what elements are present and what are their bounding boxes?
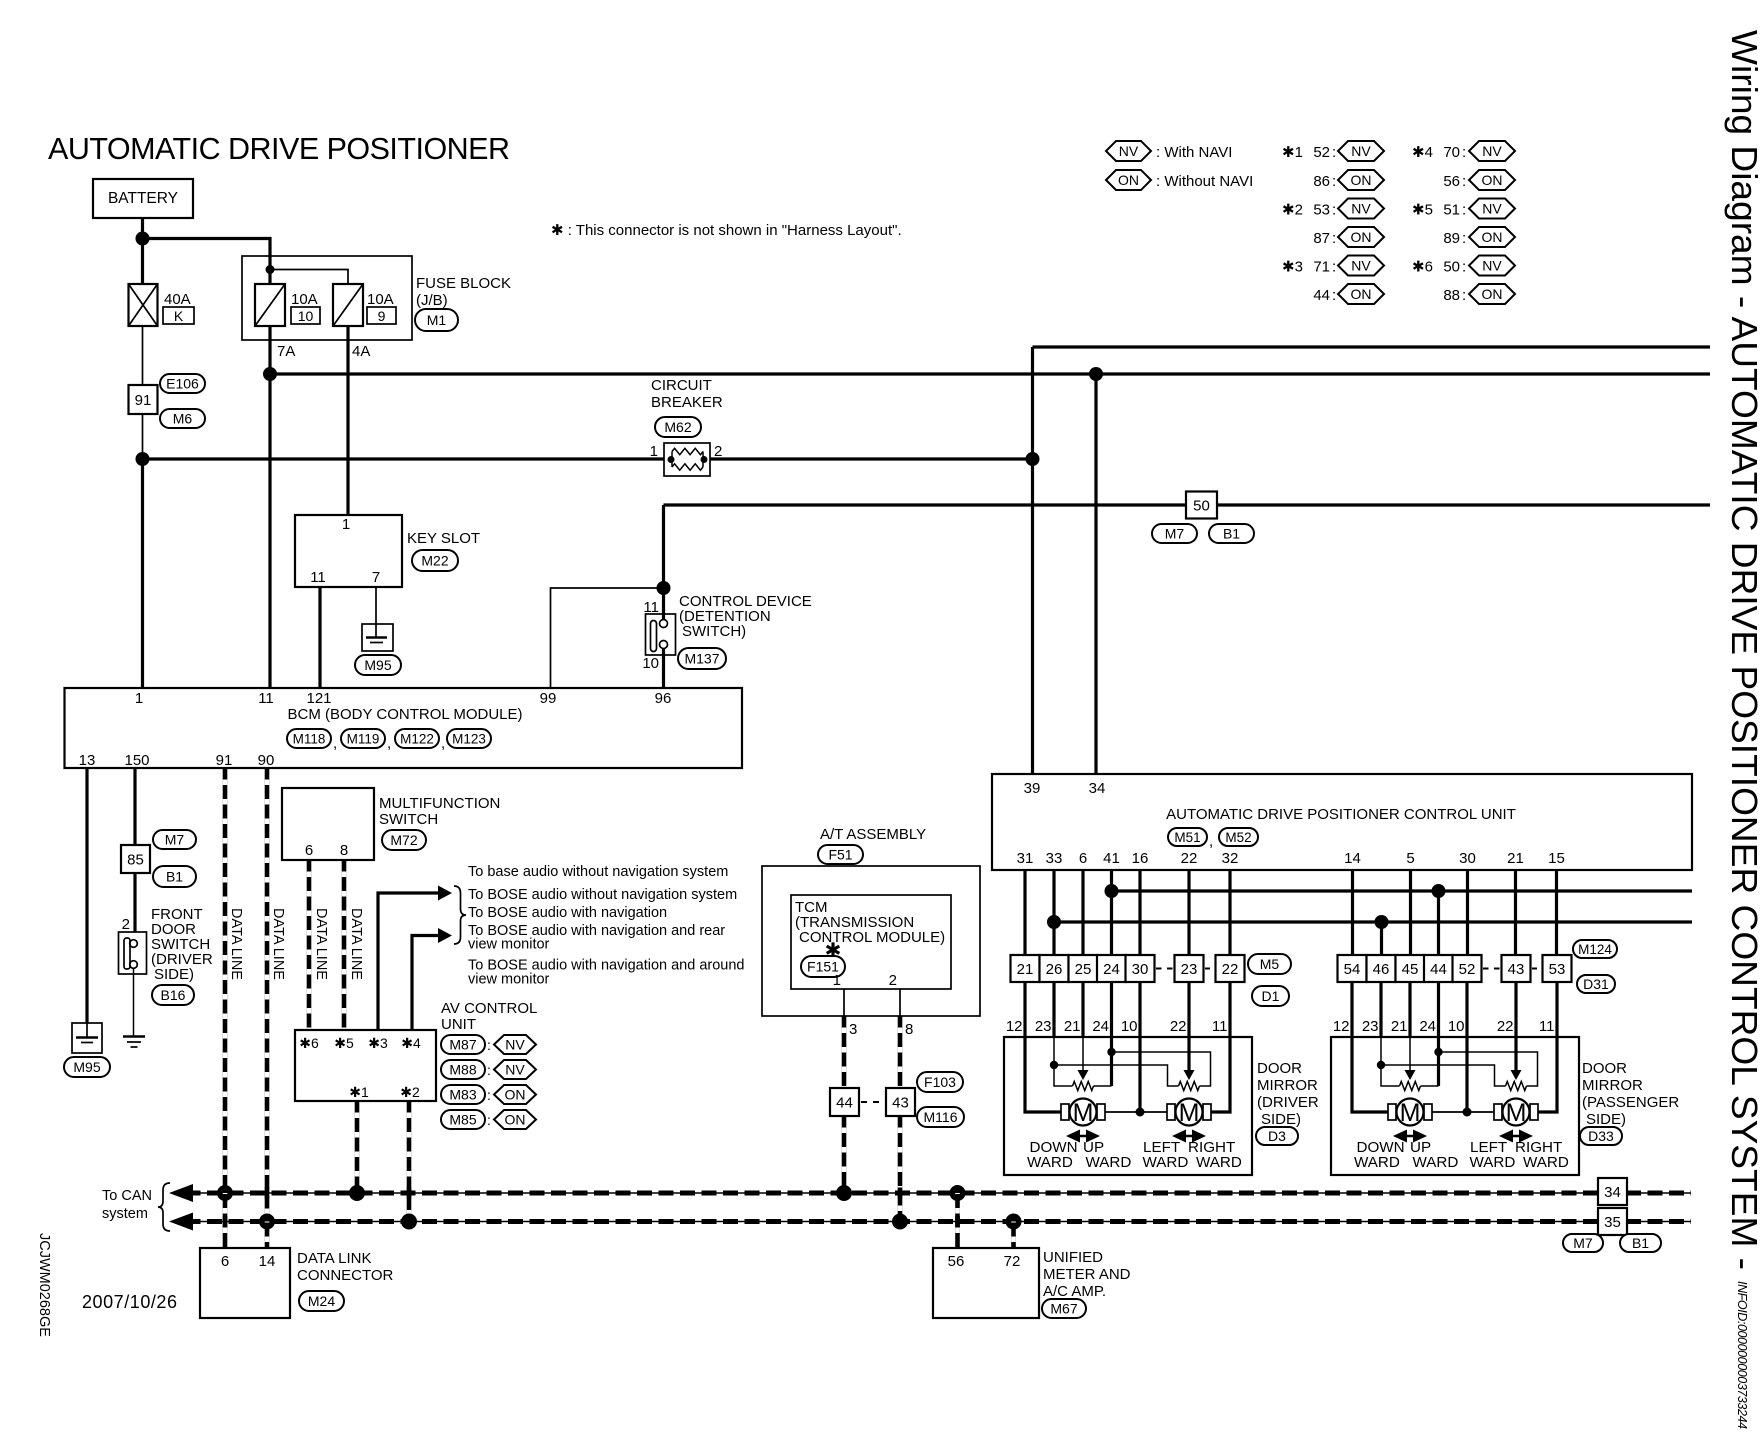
svg-text:43: 43 [892, 1095, 909, 1112]
connector label B1 (50 bus) [1209, 524, 1254, 543]
connector terminal 46 (passenger mirror) [1367, 955, 1396, 982]
svg-text:✱2: ✱2 [1282, 202, 1303, 219]
svg-text:DOOR: DOOR [1582, 1060, 1627, 1077]
wire connector 43 to CAN H [898, 1116, 903, 1222]
wire CAN H bus [182, 1219, 1691, 1224]
wire connector 44 to CAN L [842, 1116, 847, 1193]
svg-text:23: 23 [1181, 961, 1198, 978]
fuse terminal box 9 [367, 307, 396, 324]
svg-text:M95: M95 [364, 657, 391, 673]
svg-text:NV: NV [1482, 201, 1502, 217]
node CB riser junction [1026, 452, 1040, 466]
wire 50-bus [664, 503, 1711, 506]
svg-text:D33: D33 [1588, 1128, 1614, 1144]
svg-text:30: 30 [1132, 961, 1149, 978]
connector terminal 54 (passenger mirror) [1338, 955, 1367, 982]
connector label B1 [153, 866, 196, 887]
svg-text:2007/10/26: 2007/10/26 [82, 1292, 177, 1312]
svg-text:22: 22 [1181, 850, 1198, 867]
unified meter and A/C amp box [933, 1248, 1039, 1318]
svg-text:BREAKER: BREAKER [651, 394, 723, 411]
svg-text:45: 45 [1402, 961, 1419, 978]
wire connector to driver mirror pin 1 [1023, 982, 1026, 1037]
svg-text:34: 34 [1604, 1184, 1621, 1201]
brace audio options [454, 886, 466, 944]
fusible link 40A K (battery) [129, 284, 158, 326]
fuse 10A #10 [255, 284, 285, 326]
connector terminal 24 (driver mirror) [1097, 955, 1126, 982]
connector terminal 45 (passenger mirror) [1396, 955, 1425, 982]
connector label D33 [1580, 1127, 1622, 1145]
svg-text:NV: NV [505, 1037, 525, 1053]
svg-text:BCM (BODY CONTROL MODULE): BCM (BODY CONTROL MODULE) [287, 706, 522, 723]
wire A/T pin 8 to connector 43 [898, 1016, 903, 1088]
wire key slot pin 7 to ground [375, 587, 377, 624]
svg-text:D1: D1 [1262, 988, 1280, 1004]
wire control unit pin 31 to connector [1023, 870, 1026, 955]
wire feed into fuse 10 [268, 257, 271, 284]
svg-text:✱3: ✱3 [1282, 259, 1303, 276]
multifunction switch M72 [282, 788, 374, 860]
wire control unit pin 5 to connector [1409, 870, 1412, 955]
svg-text:31: 31 [1017, 850, 1034, 867]
connector label M22 [412, 550, 458, 571]
svg-text:DATA LINK: DATA LINK [297, 1250, 371, 1267]
svg-text:M122: M122 [400, 732, 434, 747]
arrow CAN H to CAN system [169, 1213, 193, 1231]
svg-text::: : [1462, 202, 1466, 219]
svg-text:43: 43 [1508, 961, 1525, 978]
connector label M116 [917, 1107, 964, 1127]
svg-text:96: 96 [655, 690, 672, 707]
svg-text:ON: ON [505, 1112, 526, 1128]
data link connector M24 [200, 1248, 290, 1318]
svg-text:B1: B1 [1632, 1235, 1649, 1251]
wire battery to junction [141, 218, 144, 241]
svg-text:2: 2 [122, 916, 130, 933]
connector terminal 52 (passenger mirror) [1453, 955, 1482, 982]
svg-text:JCJWM0268GE: JCJWM0268GE [36, 1233, 52, 1337]
svg-text:54: 54 [1344, 961, 1361, 978]
svg-text:M83: M83 [449, 1087, 476, 1103]
svg-text:99: 99 [540, 690, 557, 707]
svg-text:✱1: ✱1 [1282, 144, 1303, 161]
svg-text::: : [1332, 173, 1336, 190]
terminal box 35 (CAN) [1598, 1208, 1627, 1235]
svg-text:✱2: ✱2 [400, 1084, 420, 1100]
wire control unit pin 21 to connector [1514, 870, 1517, 955]
svg-text:ON: ON [1351, 172, 1372, 188]
node CAN L taps [217, 1185, 233, 1201]
svg-text:10: 10 [642, 655, 659, 672]
svg-text:M85: M85 [449, 1112, 476, 1128]
svg-text:UNIT: UNIT [441, 1016, 476, 1033]
connector label M7 (50 bus) [1152, 524, 1197, 543]
wire dashed link 43-53 [1532, 968, 1541, 970]
svg-text:DATA LINE: DATA LINE [228, 908, 244, 980]
svg-text::: : [1462, 144, 1466, 161]
svg-text::: : [1332, 144, 1336, 161]
front door switch driver side B16 [119, 932, 147, 974]
svg-text:33: 33 [1046, 850, 1063, 867]
svg-text:M7: M7 [1165, 526, 1185, 542]
svg-text:K: K [174, 308, 184, 324]
svg-text:26: 26 [1046, 961, 1063, 978]
svg-text:✱5: ✱5 [1412, 202, 1433, 219]
svg-text:AUTOMATIC DRIVE POSITIONER CON: AUTOMATIC DRIVE POSITIONER CONTROL UNIT [1166, 806, 1516, 823]
svg-text:✱ : This connector is not show: ✱ : This connector is not shown in "Harn… [551, 222, 902, 239]
svg-text:NV: NV [1482, 258, 1502, 274]
connector label M67 [1042, 1299, 1086, 1318]
connector terminal 21 (driver mirror) [1011, 955, 1040, 982]
svg-text:CONTROL MODULE): CONTROL MODULE) [799, 929, 945, 946]
connector label M119 [341, 729, 385, 748]
svg-text:✱1: ✱1 [349, 1084, 369, 1100]
svg-text::: : [1332, 230, 1336, 247]
wire data line BCM pin 91 to CAN L [223, 768, 228, 1193]
wire control unit pin 34 riser [1094, 374, 1097, 774]
wire dashed link 44-43 [861, 1101, 884, 1103]
svg-text:SIDE): SIDE) [154, 966, 194, 983]
svg-text::: : [1332, 287, 1336, 304]
connector terminal 43 (passenger mirror) [1502, 955, 1531, 982]
wire junction to detention switch pin 11 [662, 588, 665, 619]
node bus H tap left [1047, 915, 1061, 929]
svg-text:53: 53 [1313, 202, 1330, 219]
wire control unit pin 22 to connector [1187, 870, 1190, 955]
wire AV unit *1 to CAN L [355, 1101, 360, 1193]
svg-text:6: 6 [221, 1253, 229, 1270]
connector terminal 44 (passenger mirror) [1424, 955, 1453, 982]
connector label M7 (CAN) [1563, 1234, 1603, 1252]
svg-text:M24: M24 [308, 1293, 335, 1309]
connector terminal 53 (passenger mirror) [1543, 955, 1572, 982]
svg-text:ON: ON [1482, 172, 1503, 188]
wire control unit pin 33 to connector (bus H tap) [1052, 870, 1055, 955]
connector label M87 with NV [441, 1035, 485, 1054]
svg-text:M118: M118 [293, 732, 326, 747]
svg-text:M7: M7 [1573, 1235, 1593, 1251]
wire battery junction to fuse block feed [143, 239, 271, 258]
svg-text:52: 52 [1459, 961, 1476, 978]
svg-text:11: 11 [310, 569, 326, 586]
svg-text::: : [1462, 173, 1466, 190]
svg-text:E106: E106 [166, 376, 199, 392]
wire detention switch pin 10 to BCM pin 96 [662, 649, 665, 689]
wire key slot pin 11 to BCM pin 121 [318, 587, 321, 688]
wire mirror bus H (left/right) [1054, 920, 1692, 923]
node CAN H taps [259, 1214, 275, 1230]
wire control unit pin 30 to connector [1466, 870, 1469, 955]
connector label M5 [1248, 954, 1291, 974]
node battery/CB junction [136, 452, 150, 466]
wire AV unit *2 to CAN H [407, 1101, 412, 1222]
svg-text:DOOR: DOOR [1257, 1060, 1302, 1077]
svg-text::: : [487, 1062, 491, 1078]
svg-text:✱4: ✱4 [401, 1035, 421, 1051]
svg-text:: With NAVI: : With NAVI [1156, 144, 1232, 161]
connector 44 [830, 1088, 859, 1116]
fuse block J/B box M1 [242, 256, 412, 340]
svg-text:DATA LINE: DATA LINE [270, 908, 286, 980]
svg-text:(J/B): (J/B) [416, 292, 448, 309]
svg-text:6: 6 [305, 842, 313, 859]
svg-text:MIRROR: MIRROR [1582, 1077, 1643, 1094]
svg-text:ON: ON [1482, 286, 1503, 302]
connector label B16 [152, 985, 194, 1005]
wire junction down to BCM pin 1 [141, 459, 144, 688]
svg-text:21: 21 [1017, 961, 1034, 978]
svg-text:BATTERY: BATTERY [108, 190, 178, 207]
wire connector to passenger mirror pin 3 [1408, 982, 1411, 1037]
wire top bus (battery) [1033, 345, 1711, 348]
door mirror driver side D3 [1004, 1018, 1252, 1175]
svg-text:view monitor: view monitor [468, 972, 550, 988]
svg-text:SWITCH): SWITCH) [682, 623, 746, 640]
node 7A bus junction [263, 367, 277, 381]
svg-text:MULTIFUNCTION: MULTIFUNCTION [379, 795, 500, 812]
connector label M6 [160, 409, 205, 428]
wire BCM pin 150 to connector 85 [133, 768, 136, 845]
svg-text:M87: M87 [449, 1037, 476, 1053]
svg-text:91: 91 [216, 752, 233, 769]
svg-text:46: 46 [1373, 961, 1390, 978]
svg-text:50: 50 [1193, 498, 1210, 515]
svg-text:✱4: ✱4 [1412, 144, 1433, 161]
wire control unit pin 41 to connector (bus V tap) [1110, 870, 1113, 955]
wire battery junction to fusible link [141, 239, 144, 285]
arrow CAN L to CAN system [169, 1184, 193, 1202]
connector label M72 [382, 830, 426, 850]
svg-text:METER AND: METER AND [1043, 1266, 1131, 1283]
svg-text:52: 52 [1313, 144, 1330, 161]
wire CAN L to data link connector pin 6 [223, 1193, 228, 1248]
AV control unit box [295, 1030, 436, 1101]
svg-text:11: 11 [258, 690, 274, 707]
svg-text:2: 2 [889, 972, 897, 989]
svg-text:56: 56 [1443, 173, 1460, 190]
svg-text:✱3: ✱3 [368, 1035, 388, 1051]
svg-text:M88: M88 [449, 1062, 476, 1078]
wire connector to passenger mirror pin 7 [1555, 982, 1558, 1037]
wire connector 91 to junction [142, 414, 144, 459]
svg-text:13: 13 [79, 752, 96, 769]
svg-text:M7: M7 [165, 832, 185, 848]
svg-text:15: 15 [1548, 850, 1565, 867]
svg-text:34: 34 [1089, 780, 1106, 797]
wire connector to passenger mirror pin 5 [1465, 982, 1468, 1037]
svg-text:,: , [387, 735, 391, 752]
svg-text:KEY SLOT: KEY SLOT [407, 530, 480, 547]
svg-text:40A: 40A [164, 291, 191, 308]
svg-text:M123: M123 [452, 732, 486, 747]
connector label D31 [1577, 975, 1615, 993]
svg-text:50: 50 [1443, 259, 1460, 276]
svg-text:91: 91 [135, 392, 152, 409]
svg-text::: : [1462, 259, 1466, 276]
svg-text:86: 86 [1313, 173, 1330, 190]
ground label M95 (left) [64, 1057, 110, 1077]
svg-text:D31: D31 [1583, 976, 1609, 992]
svg-text:DATA LINE: DATA LINE [348, 908, 364, 980]
svg-text:NV: NV [1351, 201, 1371, 217]
connector label M124 [1573, 940, 1617, 958]
svg-text:NV: NV [1351, 143, 1371, 159]
svg-text:B1: B1 [166, 869, 183, 885]
wire connector to driver mirror pin 3 [1081, 982, 1084, 1037]
terminal box K [163, 307, 194, 324]
node detention switch junction [657, 581, 671, 595]
connector label M122 [395, 729, 439, 748]
terminal box 34 (CAN) [1598, 1178, 1627, 1205]
svg-text:M124: M124 [1578, 942, 1612, 957]
svg-text:,: , [441, 735, 445, 752]
svg-text::: : [487, 1037, 491, 1053]
wire connector to driver mirror pin 6 [1187, 982, 1190, 1037]
control device detention switch M137 [646, 614, 676, 655]
svg-text:ON: ON [1351, 286, 1372, 302]
svg-text:M72: M72 [390, 832, 417, 848]
node bus V tap left [1105, 884, 1119, 898]
wire connector to driver mirror pin 7 [1228, 982, 1231, 1037]
wire fuse 9 output 4A [346, 326, 349, 515]
svg-text:72: 72 [1004, 1253, 1021, 1270]
door mirror passenger side D33 [1331, 1018, 1579, 1175]
wire crossing patches on CAN buses [265, 1188, 270, 1199]
svg-text:F103: F103 [924, 1074, 956, 1090]
wire dashed link 52-43 [1483, 968, 1500, 970]
svg-text:M1: M1 [427, 312, 447, 328]
earth ground (door switch) [123, 1035, 145, 1037]
connector 85 (M7/B1) [121, 845, 150, 873]
svg-text:8: 8 [905, 1021, 913, 1038]
svg-text:To BOSE audio without navigati: To BOSE audio without navigation system [468, 887, 737, 903]
svg-text:21: 21 [1507, 850, 1524, 867]
svg-text:3: 3 [849, 1021, 857, 1038]
svg-text:B16: B16 [161, 987, 186, 1003]
svg-text:ON: ON [505, 1087, 526, 1103]
legend ON without NAVI [1106, 170, 1151, 190]
wire TCM pin 2 to A/T case [899, 989, 901, 1016]
svg-text:8: 8 [340, 842, 348, 859]
svg-text:14: 14 [259, 1253, 276, 1270]
connector terminal 26 (driver mirror) [1040, 955, 1069, 982]
svg-text:UNIFIED: UNIFIED [1043, 1249, 1103, 1266]
connector terminal 23 (driver mirror) [1175, 955, 1204, 982]
wire CAN L to unified meter pin 56 [955, 1193, 960, 1248]
ground label M95 [355, 655, 401, 675]
svg-text:M116: M116 [924, 1109, 958, 1125]
wire connector to driver mirror pin 5 [1138, 982, 1141, 1037]
wire data line BCM pin 90 to CAN H [265, 768, 270, 1222]
connector 43 [886, 1088, 915, 1116]
svg-text:1: 1 [650, 443, 658, 460]
connector label M88 with NV [441, 1060, 485, 1079]
svg-text:AV CONTROL: AV CONTROL [441, 1000, 537, 1017]
connector label F151 [801, 956, 845, 977]
wire BCM pin 99 riser [551, 588, 664, 688]
svg-text:M52: M52 [1225, 830, 1251, 845]
automatic drive positioner control unit box [992, 774, 1692, 870]
wire BCM pin 13 to ground [85, 768, 88, 1023]
svg-text:32: 32 [1222, 850, 1239, 867]
connector label M62 [655, 417, 701, 437]
svg-text:M51: M51 [1174, 830, 1200, 845]
svg-text:ON: ON [1482, 229, 1503, 245]
connector 91 (E106/M6) [129, 385, 158, 414]
wire detention switch bus corner [662, 505, 665, 588]
wire 7A bus to control unit pin 34 riser [270, 372, 1710, 375]
wire connector 85 to door switch pin 2 [133, 873, 136, 932]
svg-text:70: 70 [1443, 144, 1460, 161]
svg-text:A/C AMP.: A/C AMP. [1043, 1283, 1106, 1300]
connector label M51 [1168, 828, 1207, 846]
svg-text:41: 41 [1103, 850, 1120, 867]
svg-text:9: 9 [378, 308, 386, 324]
svg-text:39: 39 [1024, 780, 1041, 797]
connector terminal 30 (driver mirror) [1126, 955, 1155, 982]
wire control unit pin 32 to connector [1228, 870, 1231, 955]
wire control unit pin 6 to connector [1081, 870, 1084, 955]
svg-text:Wiring Diagram - AUTOMATIC DRI: Wiring Diagram - AUTOMATIC DRIVE POSITIO… [1724, 30, 1760, 1270]
svg-text:CONNECTOR: CONNECTOR [297, 1267, 394, 1284]
svg-text:85: 85 [127, 852, 144, 869]
connector label B1 (CAN) [1620, 1234, 1661, 1252]
svg-text:M62: M62 [664, 419, 691, 435]
node 7A bus tap [1089, 367, 1103, 381]
svg-text:M67: M67 [1050, 1301, 1077, 1317]
svg-text:88: 88 [1443, 287, 1460, 304]
wire fusible link to connector 91 [142, 326, 144, 385]
svg-text:ON: ON [1351, 229, 1372, 245]
svg-text:✱5: ✱5 [334, 1035, 354, 1051]
svg-text:ON: ON [1118, 172, 1139, 188]
node battery junction [136, 232, 150, 246]
fuse 10A #9 [333, 284, 363, 326]
svg-text:SIDE): SIDE) [1261, 1111, 1301, 1128]
svg-text:24: 24 [1103, 961, 1120, 978]
svg-text:M6: M6 [173, 411, 193, 427]
BCM body control module box [65, 688, 743, 768]
wire control unit pin 15 to connector [1555, 870, 1558, 955]
svg-text:150: 150 [124, 752, 149, 769]
svg-text:To BOSE audio with navigation: To BOSE audio with navigation [468, 905, 667, 921]
svg-text:56: 56 [948, 1253, 965, 1270]
connector label D1 [1252, 986, 1289, 1006]
wire door switch to earth ground [133, 968, 135, 1036]
connector label F51 [818, 845, 863, 864]
svg-text:10: 10 [298, 308, 314, 324]
connector label M7 [153, 830, 196, 849]
svg-text:53: 53 [1549, 961, 1566, 978]
wire data line multifunction 6 to AV unit [307, 860, 312, 1030]
svg-text::: : [1462, 230, 1466, 247]
svg-text:M22: M22 [421, 553, 448, 569]
wire circuit breaker pin 2 to riser [710, 457, 1033, 460]
svg-text:M5: M5 [1260, 956, 1280, 972]
svg-text:87: 87 [1313, 230, 1330, 247]
svg-text:7: 7 [372, 569, 380, 586]
svg-text:✱6: ✱6 [299, 1035, 319, 1051]
svg-text:7A: 7A [277, 343, 295, 360]
svg-text::: : [487, 1087, 491, 1103]
svg-text:4A: 4A [352, 343, 370, 360]
svg-text:M95: M95 [73, 1059, 100, 1075]
wire TCM pin 1 to A/T case [843, 989, 845, 1016]
legend NV with NAVI [1106, 141, 1151, 161]
wire connector to passenger mirror pin 2 [1379, 982, 1382, 1037]
key slot M22 [295, 515, 402, 587]
